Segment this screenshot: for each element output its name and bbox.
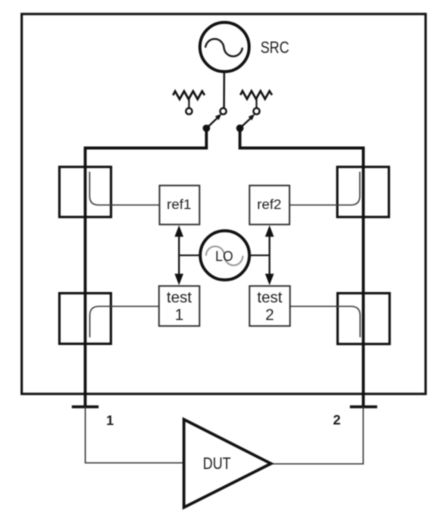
coupled line to test1 (90, 306, 159, 337)
switch S2 arm (240, 114, 255, 128)
mixer ref1 (160, 186, 200, 225)
node left throw contact (186, 108, 192, 114)
svg-text:2: 2 (333, 412, 341, 427)
wire port1 main arm (85, 128, 206, 407)
mixer ref2 (250, 186, 290, 225)
svg-text:1: 1 (175, 307, 184, 324)
LO sine wave (206, 246, 243, 265)
svg-text:test: test (257, 289, 283, 306)
resistor right load (240, 91, 272, 99)
wire LO left stub (179, 254, 200, 256)
coupled line to ref2 (290, 172, 360, 205)
test set enclosure frame (22, 14, 426, 394)
wire port2 main arm (240, 128, 363, 407)
wire left load to contact (188, 99, 190, 108)
coupler top-right (337, 167, 389, 217)
coupled line to test2 (290, 306, 361, 337)
svg-text:ref2: ref2 (257, 197, 282, 213)
LO arrow right (ref2/test2) (265, 225, 274, 285)
coupler bottom-left (59, 293, 111, 344)
svg-text:ref1: ref1 (167, 197, 192, 213)
SRC sine wave (205, 39, 242, 56)
svg-text:LO: LO (215, 248, 233, 265)
svg-text:1: 1 (106, 413, 114, 428)
node switch S2 pole (236, 125, 243, 132)
switch S1 arm (206, 114, 221, 129)
svg-text:test: test (167, 289, 193, 306)
wire port1 to DUT input (85, 407, 183, 463)
amplifier DUT (184, 419, 271, 507)
wire LO right stub (249, 254, 269, 256)
svg-text:DUT: DUT (203, 455, 231, 474)
coupled line to ref1 (90, 172, 160, 205)
node right throw contact (253, 108, 259, 114)
LO local oscillator circle (200, 231, 249, 280)
coupler top-left (59, 167, 111, 217)
svg-text:2: 2 (265, 307, 274, 324)
wire DUT output to port2 (271, 407, 363, 464)
node switch S1 pole (203, 125, 210, 132)
port 2 tick (350, 405, 377, 408)
LO arrow left (ref1/test1) (175, 225, 184, 285)
svg-text:SRC: SRC (261, 39, 290, 58)
mixer test2 (250, 286, 291, 326)
wire SRC to switch common contact (223, 72, 225, 108)
wire right load to contact (256, 99, 258, 108)
mixer test1 (159, 286, 200, 326)
coupler bottom-right (338, 293, 390, 344)
resistor left load (173, 91, 205, 99)
port 1 tick (72, 405, 99, 408)
node switch common contact (220, 108, 226, 114)
source SRC circle (200, 22, 249, 71)
